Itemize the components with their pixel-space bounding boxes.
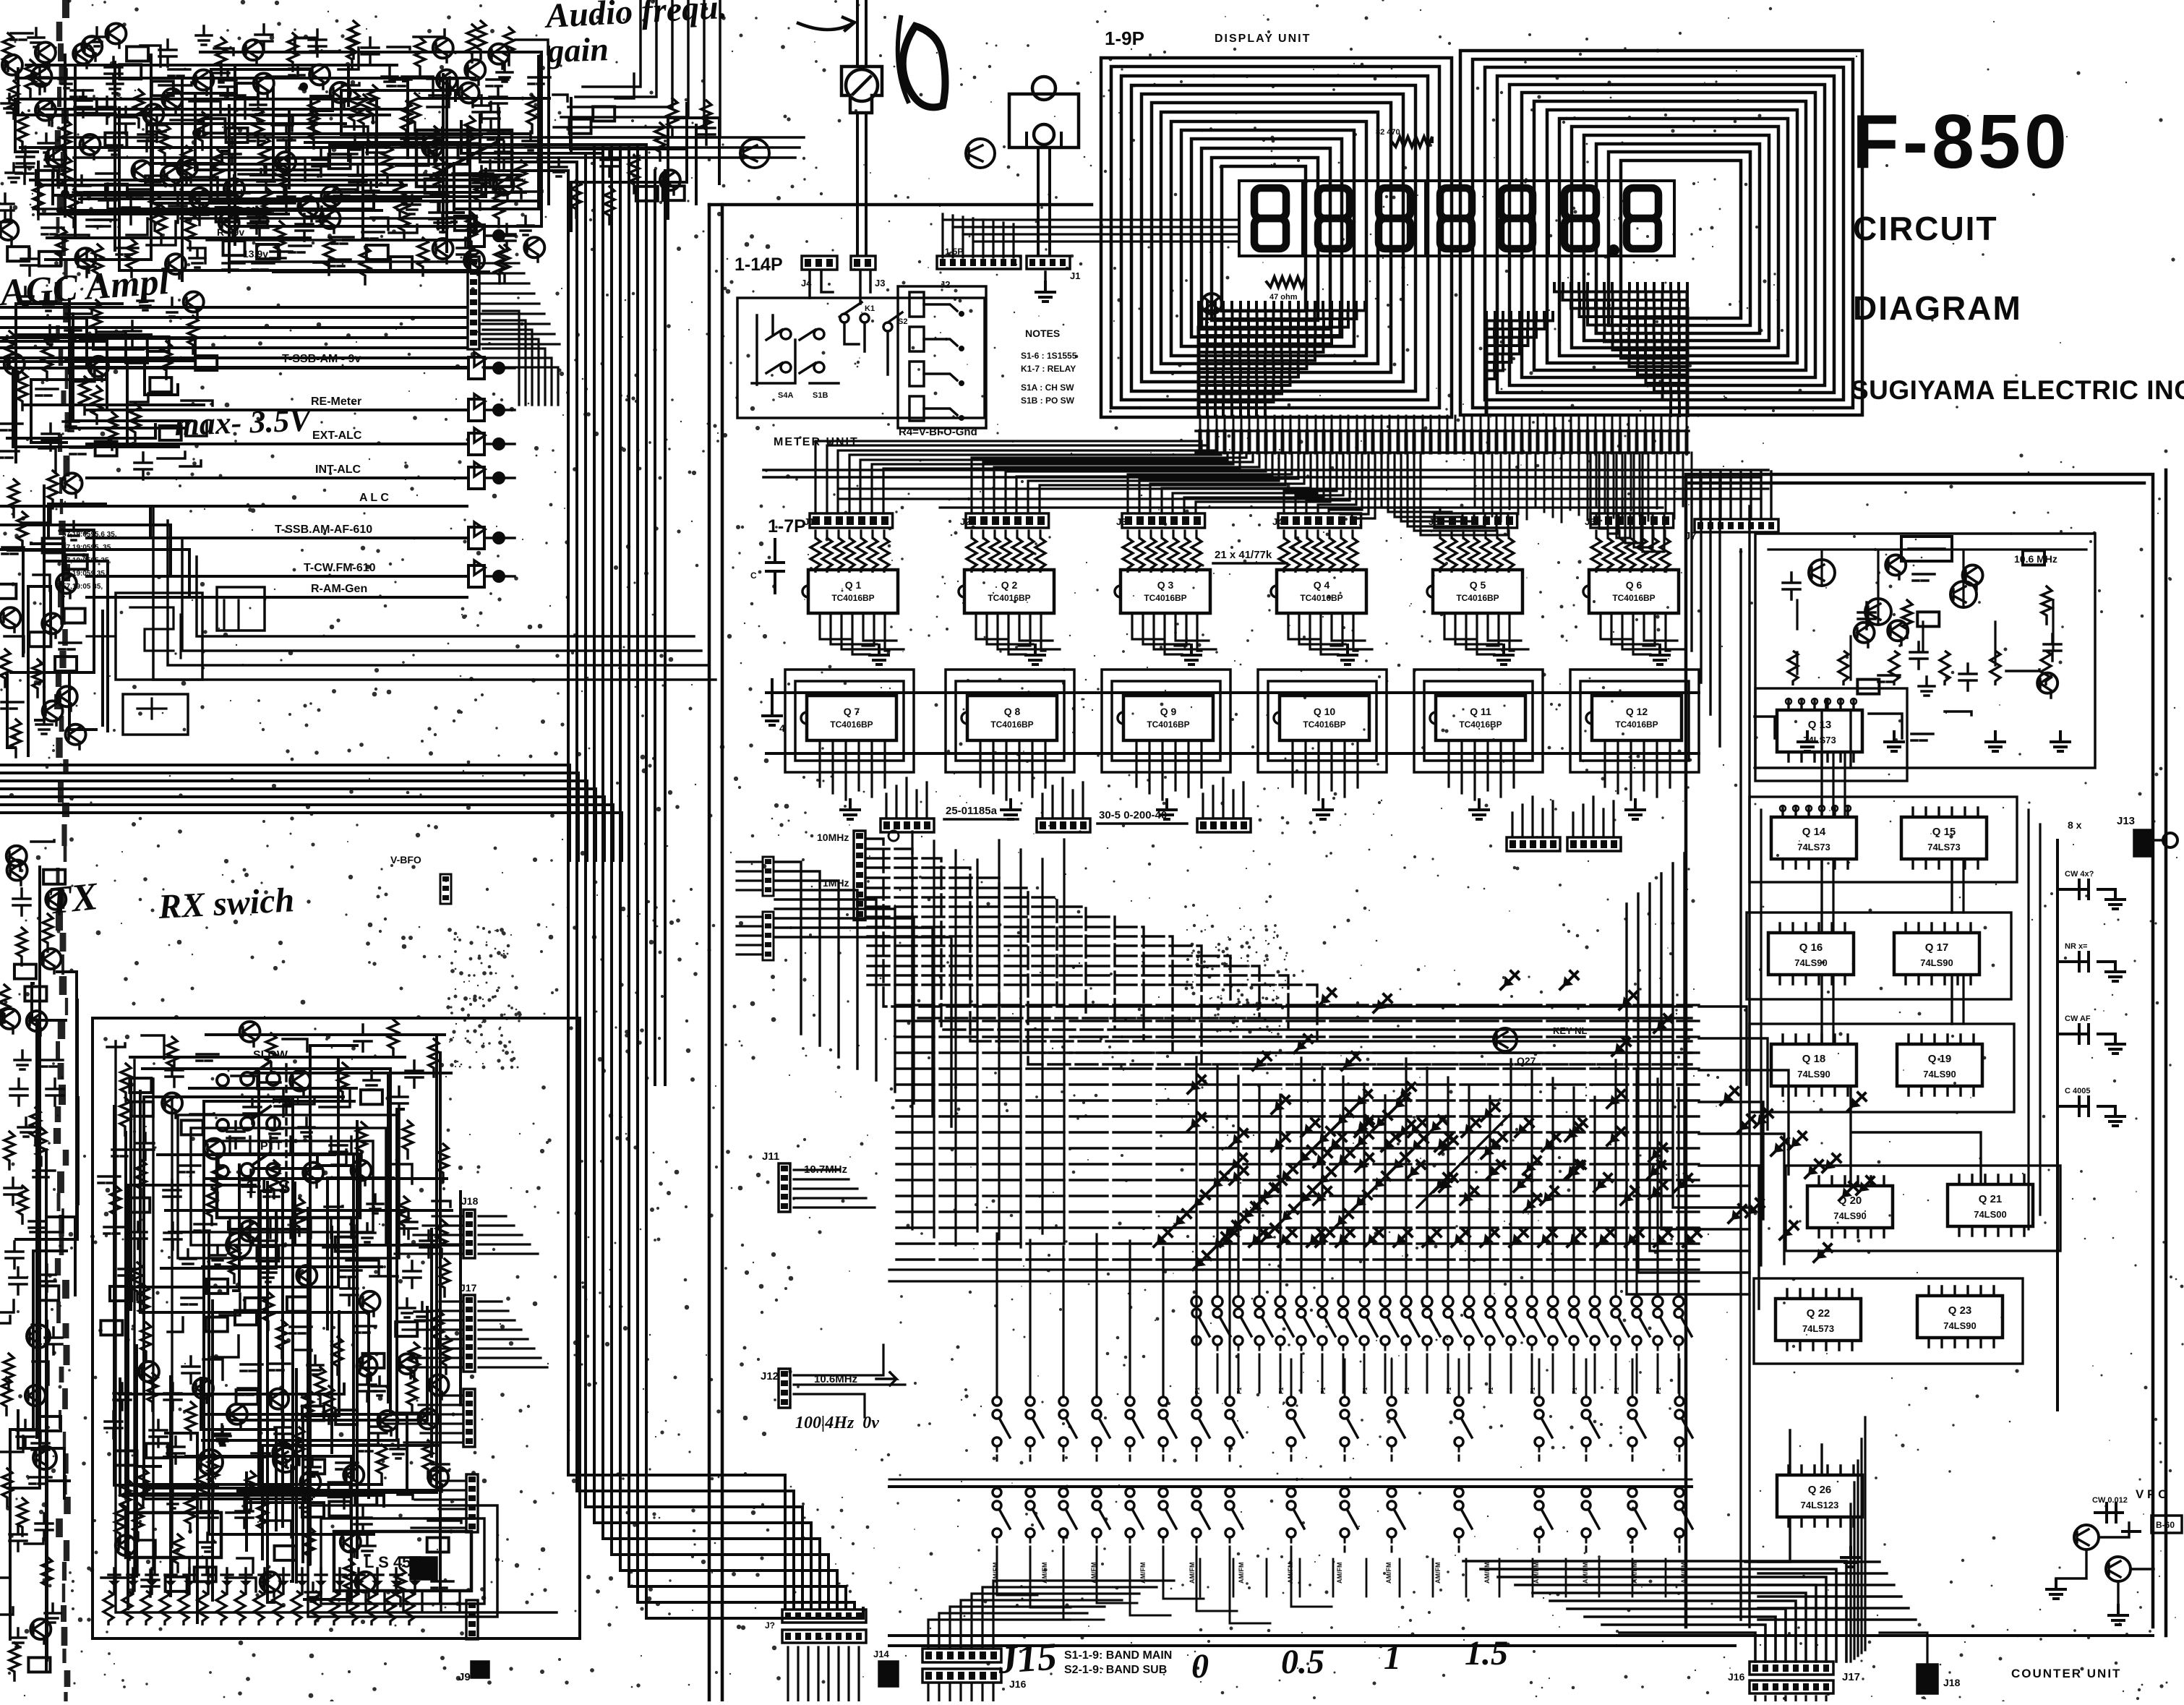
svg-text:F1: F1 [1446, 1387, 1452, 1394]
svg-text:82 470: 82 470 [1376, 128, 1400, 137]
connector J13 [2134, 830, 2151, 856]
connector J6 (IC row) [1590, 513, 1674, 528]
connector J5c [468, 565, 484, 587]
signal wire B-SEARCH-9v [181, 217, 468, 220]
svg-text:1-7P: 1-7P [768, 516, 806, 537]
IC Q14 74LS73 [1771, 817, 1857, 859]
wire loop Q10 outer [1258, 670, 1387, 772]
fan J18L [395, 1216, 463, 1254]
wires below Q9 [1136, 740, 1202, 800]
wire loop around Q20/Q21 [1786, 1166, 2060, 1251]
stubs under row3 columns [1200, 1559, 1666, 1597]
IC A (LSI) [217, 1154, 360, 1218]
svg-text:L S 45: L S 45 [364, 1553, 411, 1571]
wires J3 to resistors [1128, 531, 1196, 538]
svg-text:RX swich: RX swich [157, 881, 296, 926]
svg-text:Q 22: Q 22 [1807, 1307, 1830, 1320]
connector JL4 [466, 1474, 478, 1532]
svg-text:AM/FM: AM/FM [1336, 1563, 1343, 1584]
7-segment digit 1 [1254, 188, 1286, 249]
7-segment digit 4 [1440, 188, 1472, 249]
wires J2 to resistors [972, 531, 1040, 538]
IC Q13 74LS73 [1777, 710, 1862, 752]
signal wire A L C [87, 505, 467, 508]
svg-text:25-01185a: 25-01185a [946, 805, 998, 817]
osc transistor 2 [1865, 599, 1891, 625]
wire fan display strip to IC connectors [815, 441, 1664, 552]
svg-text:8 x: 8 x [2068, 819, 2082, 831]
ink blob scribble [903, 26, 946, 107]
wire loop Q8 inner [956, 681, 1064, 761]
relay bank K1-K4 [898, 286, 986, 428]
svg-text:74LS90: 74LS90 [1833, 1210, 1867, 1221]
wires osc to Q13 [1822, 710, 1851, 768]
svg-text:J?: J? [765, 1620, 775, 1631]
fan from tall multipin [481, 263, 560, 344]
svg-text:TX: TX [46, 874, 101, 923]
svg-text:1-9P: 1-9P [1105, 27, 1144, 49]
svg-text:INT-ALC: INT-ALC [315, 463, 361, 476]
ground left Q7 [771, 680, 774, 706]
connector P5 below row2 [1567, 837, 1621, 851]
svg-text:Q 10: Q 10 [1314, 706, 1336, 717]
svg-text:Q 20: Q 20 [1838, 1195, 1862, 1207]
ground relay [445, 202, 463, 222]
svg-text:J17: J17 [1842, 1671, 1860, 1683]
svg-text:DISPLAY UNIT: DISPLAY UNIT [1215, 33, 1311, 45]
wires below Q2 [976, 613, 1060, 654]
bundle top bends [330, 108, 646, 171]
svg-text:21 x 41/77k: 21 x 41/77k [1215, 549, 1272, 561]
wires below Q11 [1449, 740, 1514, 800]
IC Q11 TC4016BP [1436, 696, 1525, 740]
svg-text:74LS00: 74LS00 [1974, 1209, 2007, 1220]
transistor LB1 [226, 1233, 251, 1257]
loops around IC B [321, 1518, 484, 1604]
svg-text:Q 14: Q 14 [1802, 826, 1826, 838]
connector J4 [802, 256, 837, 270]
wire loop Q12 outer [1570, 670, 1699, 772]
osc transistor 1 [1809, 560, 1835, 586]
7-segment digit 6 [1564, 188, 1596, 249]
IC Q1 TC4016BP [808, 570, 898, 613]
svg-text:74LS123: 74LS123 [1801, 1500, 1839, 1510]
svg-text:Q 6: Q 6 [1626, 579, 1643, 591]
loop rect relays [153, 506, 716, 680]
wire staircase mesh mid [1486, 312, 1554, 414]
transistor VT1 [2074, 1525, 2099, 1550]
transistor LB2 [27, 1325, 50, 1348]
svg-text:J13: J13 [2117, 815, 2135, 827]
wire loop Q10 inner [1268, 681, 1376, 761]
svg-text:K1-7 : RELAY: K1-7 : RELAY [1021, 364, 1076, 374]
extra web lower-left [118, 1088, 461, 1623]
wires J4 down [810, 272, 870, 304]
meter M (panel meter) [842, 67, 882, 113]
svg-text:R-AM-Gen: R-AM-Gen [311, 583, 367, 595]
connector JL6 [466, 1600, 478, 1639]
svg-text:47 ohm: 47 ohm [1269, 293, 1298, 302]
svg-text:F-850: F-850 [1852, 99, 2070, 184]
wires J7 up [1700, 471, 1771, 518]
diode chain rails [1231, 1099, 1511, 1238]
svg-text:Q 18: Q 18 [1802, 1053, 1826, 1065]
connector JL1 [763, 857, 774, 896]
IC Q19 74LS90 [1897, 1044, 1982, 1086]
IC Q20 74LS90 [1807, 1186, 1893, 1228]
capacitor C4 right col [2057, 1097, 2115, 1116]
svg-text:A L C: A L C [359, 492, 389, 504]
connector P3 below row2 [1197, 819, 1251, 832]
wires below Q6 [1601, 613, 1684, 654]
svg-text:Q 7: Q 7 [844, 706, 860, 717]
connector J12 [779, 1369, 790, 1408]
connector J6c [468, 527, 484, 549]
comp B-60 [2151, 1516, 2182, 1533]
switch K1 [840, 314, 849, 322]
IC Q12 TC4016BP [1592, 696, 1682, 740]
signal wire T-CW.FM-610 [87, 575, 467, 578]
svg-text:AM/FM: AM/FM [1287, 1563, 1294, 1584]
svg-text:J17: J17 [460, 1282, 477, 1294]
IC Q7 TC4016BP [807, 696, 896, 740]
svg-text:F1: F1 [1404, 1387, 1410, 1394]
risers row2 to matrix [997, 1234, 1230, 1396]
svg-text:B-SEARCH-9v: B-SEARCH-9v [202, 205, 276, 217]
extra long horizontals under display [839, 489, 1768, 508]
svg-text:TC4016BP: TC4016BP [988, 593, 1030, 603]
svg-text:57,19:05 35,: 57,19:05 35, [62, 583, 103, 591]
svg-text:NR x=: NR x= [2065, 942, 2088, 951]
svg-text:J16: J16 [1728, 1671, 1745, 1683]
signal wire INT-ALC [87, 477, 467, 479]
bus bottom center [889, 1634, 2153, 1637]
wires below Q7 [820, 740, 885, 800]
svg-text:Q 21: Q 21 [1979, 1193, 2003, 1205]
capacitor C2 right col [2057, 952, 2115, 971]
resistor R (display top) [1392, 137, 1432, 147]
wire staircase mesh right [1554, 283, 1688, 416]
bus group A right bends [483, 311, 558, 405]
matrix switch row 1 [1192, 1309, 1201, 1317]
wire loop around Q18/Q19 [1750, 1024, 2014, 1112]
svg-text:C: C [750, 571, 757, 581]
oscillator box [1755, 534, 2095, 768]
svg-text:J5: J5 [1429, 516, 1439, 527]
svg-text:F1: F1 [1614, 1387, 1620, 1394]
pin circles right ICs [1786, 698, 1791, 704]
svg-text:TC4016BP: TC4016BP [1459, 719, 1502, 730]
IC Q21 74LS00 [1948, 1184, 2033, 1226]
svg-text:J16: J16 [1009, 1678, 1027, 1690]
relay box (diag symbol) [416, 130, 512, 187]
IC Q6 TC4016BP [1589, 570, 1679, 613]
connector J16 pins [928, 1685, 993, 1701]
wire relay right [419, 98, 600, 153]
switch row 2 [993, 1410, 1001, 1419]
IC Q3 TC4016BP [1121, 570, 1210, 613]
IC Q18 74LS90 [1771, 1044, 1857, 1086]
7-segment digit 7 [1627, 188, 1658, 249]
svg-text:C 4005: C 4005 [2065, 1087, 2090, 1095]
long vertical bundle (10 wires) [568, 145, 646, 1618]
svg-text:Q 26: Q 26 [1808, 1484, 1832, 1496]
connector J16 block [922, 1649, 1001, 1662]
connector P1 below row2 [881, 819, 934, 832]
stubs under matrix row1 [1196, 1359, 1679, 1393]
svg-text:0.5: 0.5 [1281, 1643, 1324, 1681]
svg-text:4: 4 [779, 722, 785, 734]
wires J1 to resistors [815, 531, 884, 538]
connector J10 block [782, 1610, 866, 1623]
upper horizontal bus [65, 137, 804, 158]
svg-text:TC4016BP: TC4016BP [1612, 593, 1655, 603]
connector J1 [1027, 256, 1070, 269]
connector JL5 [411, 1557, 437, 1579]
signal wire R-9v [207, 239, 468, 242]
connector J11 [779, 1163, 790, 1212]
resistor array above Q6 [1591, 538, 1601, 573]
ground below Q6 [1650, 645, 1669, 665]
connector J3 [851, 256, 875, 270]
wires into JL1/JL2 [737, 862, 763, 890]
svg-text:DIAGRAM: DIAGRAM [1853, 289, 2022, 327]
bus under row1 [889, 1485, 1692, 1488]
svg-text:J1: J1 [804, 516, 814, 527]
display connector strip (1-9P edge) [1200, 431, 1687, 453]
cascade from left connectors [775, 862, 951, 1127]
IC B (LS45) [334, 1531, 471, 1591]
signal wire T-SSB-AM - 9v [87, 366, 467, 369]
connector J1 (IC row) [810, 513, 893, 528]
capacitor C3 right col [2057, 1025, 2115, 1043]
svg-text:1.5: 1.5 [1465, 1634, 1508, 1672]
handwriting arrow [798, 23, 853, 30]
svg-text:NOTES: NOTES [1025, 328, 1060, 339]
wire J18 up [1880, 1633, 1927, 1665]
svg-text:10MHz: 10MHz [817, 832, 849, 843]
wires J4 to resistors [1284, 531, 1353, 538]
svg-text:J18: J18 [461, 1195, 479, 1207]
svg-text:R - 9v: R - 9v [217, 226, 244, 238]
svg-text:COUNTER UNIT: COUNTER UNIT [2011, 1667, 2121, 1680]
wires below Q1 [820, 613, 904, 654]
dashed gang line [285, 1064, 288, 1187]
vertical comb right of fan [1475, 453, 1692, 523]
resistor array above Q3 [1123, 538, 1133, 573]
connector J7 [1695, 519, 1778, 532]
svg-text:Q 8: Q 8 [1004, 706, 1021, 717]
wires P5 up [1573, 797, 1614, 836]
svg-text:J1: J1 [1070, 270, 1080, 281]
connector P4 below row2 [1507, 837, 1560, 851]
wire cascade from 10MHz connector [868, 839, 1692, 1064]
connector J8c [468, 357, 484, 379]
svg-text:74LS73: 74LS73 [1797, 842, 1830, 853]
Q26 wires [1745, 1430, 1851, 1562]
svg-text:S1-1-9: BAND MAIN: S1-1-9: BAND MAIN [1064, 1649, 1172, 1662]
wire loop around Q16/Q17 [1747, 913, 2011, 999]
ground below Q11 [1470, 800, 1489, 819]
IC Q8 TC4016BP [967, 696, 1057, 740]
wires meter to top edge [857, 0, 866, 67]
wires J5 to resistors [1440, 531, 1509, 538]
cascade vertical crossers [912, 832, 1064, 1247]
transistor LB5 [273, 1448, 298, 1472]
connector J9c [468, 399, 484, 421]
IC Q22 74LS73 [1776, 1299, 1861, 1341]
lamp block (two circles) [1009, 94, 1079, 148]
ground below Q5 [1494, 645, 1513, 665]
svg-text:RE-Meter: RE-Meter [311, 396, 361, 408]
connector J5 (IC row) [1434, 513, 1517, 528]
connector J10c [468, 225, 484, 247]
svg-text:13.9v: 13.9v [243, 248, 268, 260]
wires below Q3 [1132, 613, 1216, 654]
bus group A [0, 307, 466, 368]
connector J14 [879, 1662, 898, 1686]
wire loop Q8 outer [946, 670, 1074, 772]
analog circuit block (top-left dense) [0, 21, 550, 283]
svg-text:Q 23: Q 23 [1948, 1304, 1972, 1317]
bus group B [0, 765, 622, 860]
wires fan into J17 [1463, 1561, 1846, 1662]
svg-text:S2: S2 [898, 317, 907, 326]
bundle bottom bends to J10 [568, 1475, 863, 1618]
svg-text:Q 5: Q 5 [1470, 579, 1486, 591]
svg-text:TC4016BP: TC4016BP [1300, 593, 1342, 603]
wire loop Q12 inner [1580, 681, 1689, 761]
svg-text:0: 0 [1191, 1647, 1209, 1685]
diode field C [1304, 1124, 1314, 1134]
svg-text:F1: F1 [1320, 1387, 1327, 1394]
signal wire C-13.9v [231, 260, 468, 263]
svg-text:TC4016BP: TC4016BP [1147, 719, 1189, 730]
diode row lower-left [108, 1581, 120, 1586]
svg-text:Q 9: Q 9 [1160, 706, 1177, 717]
svg-text:CW 4x?: CW 4x? [2065, 870, 2094, 879]
svg-text:TC4016BP: TC4016BP [831, 593, 874, 603]
svg-text:J14: J14 [873, 1649, 889, 1659]
analog circuit block (top mid) [551, 74, 715, 224]
fan JL3 [385, 1396, 463, 1443]
svg-text:S2-1-9: BAND SUB: S2-1-9: BAND SUB [1064, 1664, 1167, 1676]
svg-text:1MHz: 1MHz [823, 877, 849, 889]
svg-text:F1: F1 [1362, 1387, 1369, 1394]
connector J3 (IC row) [1122, 513, 1205, 528]
ground below Q1 [870, 645, 888, 665]
svg-text:74LS90: 74LS90 [1943, 1320, 1977, 1331]
svg-text:TC4016BP: TC4016BP [1303, 719, 1345, 730]
wire loop Q11 inner [1424, 681, 1533, 761]
svg-text:100|4Hz 0v: 100|4Hz 0v [795, 1414, 879, 1432]
wire loop Q9 outer [1102, 670, 1230, 772]
connector J7c [468, 467, 484, 489]
svg-text:AM/FM: AM/FM [1385, 1563, 1392, 1584]
svg-text:1-5P: 1-5P [945, 247, 963, 257]
osc transistor 3 [1950, 581, 1977, 607]
svg-text:Q 13: Q 13 [1808, 719, 1832, 731]
wires P2 up [1042, 778, 1083, 817]
svg-text:J18: J18 [1943, 1677, 1961, 1688]
svg-text:AM/FM: AM/FM [1582, 1563, 1589, 1584]
svg-text:AM/FM: AM/FM [1533, 1563, 1540, 1584]
wires P4 up [1512, 797, 1553, 836]
wires below Q12 [1605, 740, 1670, 800]
svg-text:J6: J6 [1585, 516, 1595, 527]
svg-text:CIRCUIT: CIRCUIT [1853, 210, 1998, 247]
long bus under display [763, 470, 1768, 477]
svg-text:74LS90: 74LS90 [1797, 1069, 1830, 1080]
wires lamp to J1 [1038, 148, 1050, 255]
svg-text:AM/FM: AM/FM [1434, 1563, 1442, 1584]
svg-text:V F O: V F O [2136, 1487, 2167, 1501]
osc internals [1768, 550, 2086, 680]
svg-text:TC4016BP: TC4016BP [830, 719, 873, 730]
ground below Q12 [1626, 800, 1645, 819]
cap left Q1 [766, 539, 784, 593]
svg-text:74L573: 74L573 [1802, 1323, 1834, 1334]
matrix contact circles [1191, 1296, 1202, 1307]
diode field E [1223, 1234, 1233, 1244]
svg-text:74LS73: 74LS73 [1927, 842, 1961, 853]
ground below Q2 [1026, 645, 1045, 665]
svg-text:F1: F1 [1488, 1387, 1494, 1394]
wires below Q5 [1444, 613, 1528, 654]
ground below Q8 [1001, 800, 1020, 819]
wires VFO [2056, 1523, 2154, 1604]
osc passives [1755, 557, 2061, 740]
bus into J2 [943, 214, 1014, 257]
svg-text:S1B: S1B [813, 391, 828, 400]
connector P2 below row2 [1037, 819, 1090, 832]
fan J17L [400, 1302, 463, 1367]
wires J11 right [794, 1170, 875, 1208]
svg-text:J12: J12 [761, 1370, 779, 1383]
svg-text:KEY NL: KEY NL [1553, 1025, 1587, 1036]
meter unit box [737, 298, 985, 418]
wire loop Q11 outer [1414, 670, 1543, 772]
svg-text:J3: J3 [875, 278, 885, 289]
resistor R (display lower-left) [1267, 277, 1306, 287]
IC Q2 TC4016BP [964, 570, 1054, 613]
IC C small [126, 1513, 221, 1557]
osc grounds [1798, 732, 1817, 751]
wires meter to J3 [857, 113, 866, 255]
svg-text:T-CW.FM-610: T-CW.FM-610 [304, 562, 376, 574]
svg-text:74LS90: 74LS90 [1923, 1069, 1956, 1080]
bus across rows 2 [766, 752, 1699, 755]
wire loop Q9 inner [1112, 681, 1220, 761]
signal return loops [0, 318, 189, 597]
svg-text:EXT-ALC: EXT-ALC [312, 430, 362, 442]
svg-text:V-BFO: V-BFO [390, 854, 421, 866]
transistor LB4 [198, 1450, 223, 1474]
connector JL2 [763, 912, 774, 960]
ground below Q10 [1314, 800, 1332, 819]
diode chain B2 [1271, 1181, 1281, 1192]
connector J2 (IC row) [966, 513, 1049, 528]
analog circuit block (left edge lower) [0, 840, 64, 1680]
resistor array above Q1 [810, 538, 821, 573]
svg-text:gain: gain [547, 30, 609, 69]
diode chain A1 [1357, 1095, 1367, 1105]
connector J18L [463, 1210, 475, 1258]
ground below Q7 [841, 800, 860, 819]
wire loop around Q14/Q15 [1750, 797, 2017, 882]
transistor Q27 [1494, 1028, 1517, 1051]
signal wire RE-Meter [87, 409, 467, 411]
